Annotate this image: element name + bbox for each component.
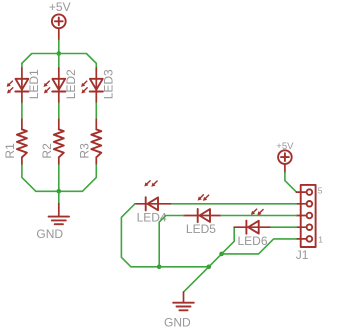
wire junction D up to node E: [209, 254, 222, 267]
svg-text:R1: R1: [3, 143, 17, 159]
svg-text:GND: GND: [164, 316, 191, 330]
wire LED6 to pin 2: [271, 226, 297, 228]
supply +5V label (left): [49, 0, 71, 14]
wire LED5 left drop: [159, 216, 184, 267]
wire LED4 left loop: [121, 204, 159, 267]
svg-text:LED3: LED3: [102, 69, 116, 99]
node D junction: [207, 265, 212, 270]
ground symbol (left): [49, 204, 69, 225]
wire node E to pin 1: [222, 239, 297, 254]
svg-text:LED4: LED4: [137, 210, 167, 224]
wire node E to LED6: [222, 227, 235, 254]
supply +5V symbol (left): [52, 14, 66, 40]
wire junction D to ground: [184, 267, 209, 292]
wire R1 to bottom bus: [22, 165, 36, 191]
LED LED6: [234, 209, 271, 234]
connector J1: [296, 185, 315, 247]
svg-text:LED6: LED6: [238, 234, 268, 248]
node A junction: [57, 51, 62, 56]
wire LED4 to pin 4: [172, 203, 297, 205]
resistor R3: [91, 119, 101, 165]
svg-text:LED5: LED5: [186, 222, 216, 236]
svg-text:1: 1: [318, 235, 323, 245]
wire bus to LED3: [95, 63, 97, 68]
wire LED2 to R2: [58, 103, 60, 119]
wire +5V to pin 5: [285, 172, 297, 192]
resistor R2: [54, 119, 64, 165]
LED LED3: [81, 68, 103, 103]
wire R2 to bottom bus: [58, 165, 60, 191]
wire LED1 to R1: [21, 103, 23, 119]
wire bottom bus: [36, 190, 83, 192]
svg-text:R2: R2: [40, 143, 54, 159]
svg-text:+5V: +5V: [49, 0, 71, 14]
svg-text:LED2: LED2: [64, 69, 78, 99]
LED LED1: [7, 68, 29, 103]
wire junction B to GND: [58, 191, 60, 203]
supply +5V symbol (right): [278, 150, 292, 172]
resistor R1: [17, 119, 27, 165]
node C junction: [157, 265, 162, 270]
supply +5V label (right): [276, 141, 294, 152]
svg-text:LED1: LED1: [27, 69, 41, 99]
wire bus to LED1: [21, 63, 23, 68]
wire R3 to bottom bus: [82, 165, 96, 191]
LED LED4: [135, 181, 172, 211]
node B junction: [57, 189, 62, 194]
wire bus to LED2: [58, 54, 60, 68]
svg-text:R3: R3: [77, 143, 91, 159]
svg-text:5: 5: [318, 186, 323, 196]
svg-text:J1: J1: [296, 248, 309, 262]
LED LED5: [184, 195, 221, 222]
svg-text:GND: GND: [36, 227, 63, 241]
ground symbol (right): [173, 292, 194, 310]
LED LED2: [44, 68, 66, 103]
wire LED5 to pin 3: [221, 215, 297, 217]
node E junction: [219, 252, 224, 257]
wire bottom bus (right): [159, 266, 209, 268]
wire top bus: [22, 54, 96, 64]
wire +5V to junction A: [58, 40, 60, 53]
wire LED3 to R3: [95, 103, 97, 119]
